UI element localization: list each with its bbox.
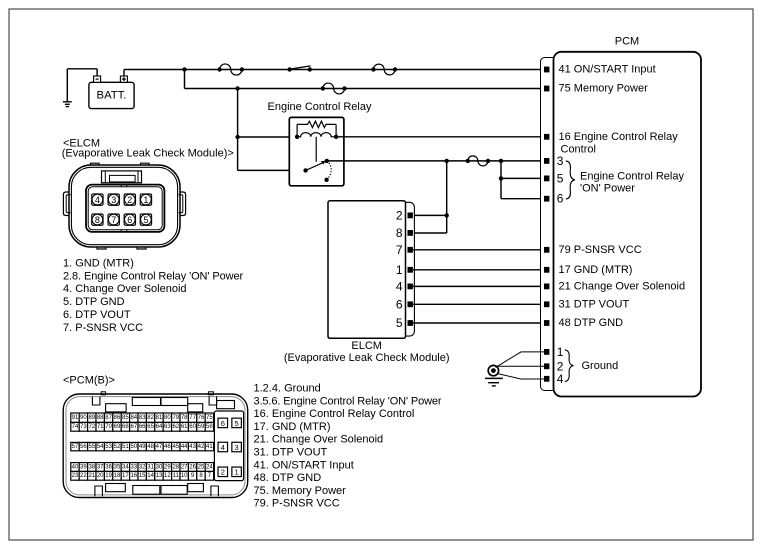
battery positive terminal xyxy=(120,76,127,82)
svg-text:1: 1 xyxy=(396,263,403,277)
ELCM pin 7 xyxy=(408,247,413,253)
wire ON power down to ELCM pin 2/8 xyxy=(446,161,448,233)
svg-text:48 DTP GND: 48 DTP GND xyxy=(559,317,624,329)
svg-text:1. GND (MTR): 1. GND (MTR) xyxy=(63,257,134,269)
junction B xyxy=(235,86,239,90)
svg-text:37: 37 xyxy=(97,464,104,470)
PCM pin 75 xyxy=(544,86,549,92)
wire to PCM pin 5 xyxy=(500,161,502,199)
svg-text:7: 7 xyxy=(396,243,403,257)
ground symbol (chassis) xyxy=(488,365,498,375)
ELCM module box xyxy=(328,201,406,339)
svg-text:7. P-SNSR VCC: 7. P-SNSR VCC xyxy=(63,322,143,334)
svg-text:5: 5 xyxy=(143,215,148,225)
svg-text:25: 25 xyxy=(198,464,205,470)
ELCM pin 2 xyxy=(408,213,413,219)
svg-text:24: 24 xyxy=(206,464,213,470)
ELCM connector pin 1 xyxy=(140,194,151,205)
svg-text:Engine Control Relay: Engine Control Relay xyxy=(580,171,684,183)
PCM pin 6 xyxy=(544,196,549,202)
svg-text:39: 39 xyxy=(80,464,87,470)
svg-text:4: 4 xyxy=(396,279,403,293)
svg-text:2.8. Engine Control Relay 'ON': 2.8. Engine Control Relay 'ON' Power xyxy=(63,270,244,282)
svg-text:78: 78 xyxy=(181,415,188,421)
wire ground to PCM pin 1 xyxy=(496,352,544,368)
svg-text:50: 50 xyxy=(130,444,137,450)
svg-text:2: 2 xyxy=(396,208,403,222)
wire battery+ to PCM pin 41 xyxy=(123,70,125,76)
svg-text:22: 22 xyxy=(80,473,87,479)
svg-text:12: 12 xyxy=(164,473,171,479)
svg-text:2: 2 xyxy=(221,468,225,477)
PCM pin 41 xyxy=(544,67,549,73)
PCM pin 4 xyxy=(544,376,549,382)
svg-text:79: 79 xyxy=(172,415,179,421)
svg-text:33: 33 xyxy=(130,464,137,470)
ELCM pin 1 xyxy=(408,267,413,273)
connector right ear xyxy=(180,192,186,216)
svg-text:21: 21 xyxy=(88,473,95,479)
svg-text:89: 89 xyxy=(88,415,95,421)
wire relay switch out (ON power) xyxy=(327,160,544,162)
svg-text:41. ON/START Input: 41. ON/START Input xyxy=(254,459,354,471)
svg-text:71: 71 xyxy=(97,424,104,430)
svg-text:32: 32 xyxy=(139,464,146,470)
svg-text:87: 87 xyxy=(105,415,112,421)
svg-text:2: 2 xyxy=(127,195,132,205)
svg-text:67: 67 xyxy=(130,424,137,430)
svg-text:15: 15 xyxy=(139,473,146,479)
svg-text:48. DTP GND: 48. DTP GND xyxy=(254,472,322,484)
ELCM pin 4 xyxy=(408,284,413,290)
svg-text:16 Engine Control Relay: 16 Engine Control Relay xyxy=(559,131,679,143)
svg-text:34: 34 xyxy=(122,464,129,470)
svg-text:60: 60 xyxy=(189,424,196,430)
svg-text:88: 88 xyxy=(97,415,104,421)
PCM pin 1 xyxy=(544,349,549,355)
svg-text:73: 73 xyxy=(80,424,87,430)
svg-text:4: 4 xyxy=(557,372,564,386)
relay resistor (parallel) xyxy=(296,124,298,136)
switch (ignition) xyxy=(287,67,291,71)
PCM(B) terminal 5 xyxy=(232,418,242,428)
svg-text:45: 45 xyxy=(172,444,179,450)
wire ELCM 4 to PCM 21 xyxy=(413,285,544,287)
svg-text:83: 83 xyxy=(139,415,146,421)
svg-text:'ON' Power: 'ON' Power xyxy=(580,182,635,194)
svg-text:7: 7 xyxy=(111,215,116,225)
svg-text:90: 90 xyxy=(80,415,87,421)
wire battery negative to ground xyxy=(96,69,98,76)
junction F (ELCM pin 2) xyxy=(445,213,449,217)
svg-text:17: 17 xyxy=(122,473,129,479)
svg-text:42: 42 xyxy=(198,444,205,450)
brace pins 3/5/6 xyxy=(566,161,575,199)
PCM module box xyxy=(554,52,702,397)
PCM(B) connector face view xyxy=(63,392,248,498)
svg-text:61: 61 xyxy=(181,424,188,430)
ELCM connector pin 6 xyxy=(124,214,135,225)
connector latch xyxy=(102,171,142,183)
connector top tab right xyxy=(141,163,150,165)
svg-text:4: 4 xyxy=(95,195,100,205)
PCM pin 79 xyxy=(544,247,549,253)
svg-text:5: 5 xyxy=(557,171,564,185)
cavity ticks xyxy=(120,185,122,188)
svg-text:31. DTP VOUT: 31. DTP VOUT xyxy=(254,447,328,459)
svg-text:1: 1 xyxy=(235,468,239,477)
svg-text:(Evaporative Leak Check Module: (Evaporative Leak Check Module)> xyxy=(62,148,234,160)
svg-text:64: 64 xyxy=(156,424,163,430)
svg-text:21 Change Over Solenoid: 21 Change Over Solenoid xyxy=(559,280,686,292)
svg-text:3: 3 xyxy=(557,154,564,168)
ELCM connector pin 3 xyxy=(108,194,119,205)
svg-text:47: 47 xyxy=(156,444,163,450)
svg-text:48: 48 xyxy=(147,444,154,450)
svg-text:62: 62 xyxy=(172,424,179,430)
fuse F1 xyxy=(217,67,221,71)
svg-text:6: 6 xyxy=(127,215,132,225)
svg-text:49: 49 xyxy=(139,444,146,450)
ground (battery) xyxy=(63,101,72,103)
PCM(B) terminal 2 xyxy=(218,467,228,477)
wire to PCM pin 75 Memory Power xyxy=(184,70,186,89)
svg-text:56: 56 xyxy=(80,444,87,450)
PCM(B) terminal grid xyxy=(71,413,79,422)
PCM(B) terminal 4 xyxy=(218,442,228,452)
ELCM connector pin 2 xyxy=(124,194,135,205)
svg-text:91: 91 xyxy=(72,415,79,421)
PCM(B) terminal 6 xyxy=(218,418,228,428)
svg-text:54: 54 xyxy=(97,444,104,450)
svg-text:10: 10 xyxy=(181,473,188,479)
wire ground to PCM pin 4 xyxy=(497,374,544,380)
battery negative terminal xyxy=(94,76,101,82)
svg-text:31 DTP VOUT: 31 DTP VOUT xyxy=(559,298,630,310)
wire ELCM 5 to PCM 48 xyxy=(413,322,544,324)
svg-text:57: 57 xyxy=(72,444,79,450)
fuse F4 xyxy=(466,159,470,163)
svg-text:80: 80 xyxy=(164,415,171,421)
svg-text:44: 44 xyxy=(181,444,188,450)
svg-text:46: 46 xyxy=(164,444,171,450)
svg-text:68: 68 xyxy=(122,424,129,430)
svg-text:75: 75 xyxy=(206,415,213,421)
svg-text:Ground: Ground xyxy=(582,360,619,372)
svg-text:76: 76 xyxy=(198,415,205,421)
svg-text:6: 6 xyxy=(221,419,225,428)
svg-text:8: 8 xyxy=(95,215,100,225)
svg-text:1.2.4. Ground: 1.2.4. Ground xyxy=(254,383,321,395)
svg-text:Control: Control xyxy=(561,143,596,155)
PCM pin 3 xyxy=(544,158,549,164)
connector cavity xyxy=(86,185,164,232)
svg-text:51: 51 xyxy=(122,444,129,450)
ELCM connector shell xyxy=(392,202,414,336)
PCM pin 31 xyxy=(544,301,549,307)
svg-text:74: 74 xyxy=(72,424,79,430)
ELCM pin 6 xyxy=(408,301,413,307)
ELCM connector pin 7 xyxy=(108,214,119,225)
svg-text:28: 28 xyxy=(172,464,179,470)
svg-text:19: 19 xyxy=(105,473,112,479)
svg-text:79 P-SNSR VCC: 79 P-SNSR VCC xyxy=(559,244,642,256)
svg-text:3: 3 xyxy=(111,195,116,205)
svg-text:21. Change Over Solenoid: 21. Change Over Solenoid xyxy=(254,434,384,446)
PCM pin 5 xyxy=(544,176,549,182)
svg-text:75. Memory Power: 75. Memory Power xyxy=(254,485,347,497)
svg-text:27: 27 xyxy=(181,464,188,470)
svg-text:4. Change Over Solenoid: 4. Change Over Solenoid xyxy=(63,283,187,295)
svg-text:6. DTP VOUT: 6. DTP VOUT xyxy=(63,309,131,321)
wire feed to relay xyxy=(237,89,239,171)
svg-text:23: 23 xyxy=(72,473,79,479)
svg-text:66: 66 xyxy=(139,424,146,430)
svg-text:29: 29 xyxy=(164,464,171,470)
svg-text:6: 6 xyxy=(396,297,403,311)
PCM pin 21 xyxy=(544,284,549,290)
svg-text:26: 26 xyxy=(189,464,196,470)
PCM pin 17 xyxy=(544,267,549,273)
ELCM connector pin 4 xyxy=(92,194,103,205)
relay armature link xyxy=(315,137,317,162)
svg-text:70: 70 xyxy=(105,424,112,430)
wire ELCM 7 to PCM 79 xyxy=(413,249,544,251)
svg-text:84: 84 xyxy=(130,415,137,421)
wire ground to PCM pin 2 xyxy=(497,365,544,367)
right pin group frame xyxy=(214,411,243,481)
svg-text:4: 4 xyxy=(221,443,225,452)
junction E xyxy=(499,159,503,163)
svg-text:11: 11 xyxy=(173,473,180,479)
svg-text:5. DTP GND: 5. DTP GND xyxy=(63,296,125,308)
svg-text:85: 85 xyxy=(122,415,129,421)
PCM connector shell xyxy=(541,58,557,391)
svg-text:16: 16 xyxy=(130,473,137,479)
svg-text:3: 3 xyxy=(235,443,239,452)
svg-text:PCM: PCM xyxy=(615,36,639,48)
svg-text:36: 36 xyxy=(105,464,112,470)
battery BATT. xyxy=(89,82,134,108)
svg-text:14: 14 xyxy=(147,473,154,479)
junction A (battery feed) xyxy=(182,67,186,71)
svg-text:55: 55 xyxy=(88,444,95,450)
svg-text:58: 58 xyxy=(206,424,213,430)
svg-text:30: 30 xyxy=(156,464,163,470)
top notches xyxy=(92,397,100,406)
fuse F2 xyxy=(371,67,375,71)
svg-text:Engine Control Relay: Engine Control Relay xyxy=(268,101,372,113)
svg-text:65: 65 xyxy=(147,424,154,430)
svg-text:79. P-SNSR VCC: 79. P-SNSR VCC xyxy=(254,498,340,510)
PCM pin 48 xyxy=(544,320,549,326)
svg-text:16. Engine Control Relay Contr: 16. Engine Control Relay Control xyxy=(254,408,415,420)
svg-text:20: 20 xyxy=(97,473,104,479)
svg-text:81: 81 xyxy=(156,415,163,421)
svg-text:41 ON/START Input: 41 ON/START Input xyxy=(559,64,656,76)
svg-text:5: 5 xyxy=(396,316,403,330)
svg-text:6: 6 xyxy=(557,192,564,206)
connector outer body xyxy=(69,165,180,247)
svg-text:5: 5 xyxy=(235,419,239,428)
wire ELCM 1 to PCM 17 xyxy=(413,269,544,271)
svg-text:53: 53 xyxy=(105,444,112,450)
svg-text:31: 31 xyxy=(147,464,154,470)
svg-text:63: 63 xyxy=(164,424,171,430)
svg-text:35: 35 xyxy=(114,464,121,470)
svg-text:77: 77 xyxy=(189,415,196,421)
PCM pin 16 xyxy=(544,134,549,140)
svg-text:52: 52 xyxy=(114,444,121,450)
wire to PCM pin 6 xyxy=(501,198,544,200)
svg-text:17 GND (MTR): 17 GND (MTR) xyxy=(559,264,633,276)
svg-text:1: 1 xyxy=(143,195,148,205)
svg-text:82: 82 xyxy=(147,415,154,421)
connector left ear xyxy=(63,192,69,216)
svg-text:<PCM(B)>: <PCM(B)> xyxy=(63,374,115,386)
svg-text:3.5.6. Engine Control Relay 'O: 3.5.6. Engine Control Relay 'ON' Power xyxy=(254,395,442,407)
svg-text:72: 72 xyxy=(88,424,95,430)
connector bottom bump left xyxy=(97,247,106,249)
svg-text:59: 59 xyxy=(198,424,205,430)
PCM(B) terminal 1 xyxy=(232,467,242,477)
relay switch xyxy=(303,168,307,172)
PCM pin 2 xyxy=(544,363,549,369)
svg-text:41: 41 xyxy=(206,444,213,450)
ELCM pin 8 xyxy=(408,230,413,236)
wire ELCM 6 to PCM 31 xyxy=(413,303,544,305)
svg-text:BATT.: BATT. xyxy=(97,89,127,101)
brace pins 1/2/4 xyxy=(565,350,574,382)
junction C (relay coil tap) xyxy=(235,135,239,139)
fuse F3 xyxy=(321,86,325,90)
svg-text:ELCM: ELCM xyxy=(351,340,382,352)
ELCM connector pin 8 xyxy=(92,214,103,225)
svg-text:75 Memory Power: 75 Memory Power xyxy=(559,83,649,95)
connector top tab left xyxy=(91,163,100,165)
bottom notches xyxy=(95,486,103,496)
junction D xyxy=(445,159,449,163)
PCM(B) terminal 3 xyxy=(232,442,242,452)
svg-text:69: 69 xyxy=(114,424,121,430)
svg-text:17. GND (MTR): 17. GND (MTR) xyxy=(254,421,331,433)
wire relay coil out to PCM 16 xyxy=(336,136,544,138)
ELCM connector face view xyxy=(63,163,185,249)
relay coil xyxy=(295,135,299,139)
ELCM connector pin 5 xyxy=(140,214,151,225)
svg-text:86: 86 xyxy=(114,415,121,421)
svg-text:(Evaporative Leak Check Module: (Evaporative Leak Check Module) xyxy=(284,352,450,364)
svg-text:43: 43 xyxy=(189,444,196,450)
svg-text:1: 1 xyxy=(557,345,564,359)
ELCM pin 5 xyxy=(408,320,413,326)
svg-text:38: 38 xyxy=(88,464,95,470)
svg-text:18: 18 xyxy=(114,473,121,479)
svg-text:8: 8 xyxy=(396,226,403,240)
svg-text:40: 40 xyxy=(72,464,79,470)
svg-text:13: 13 xyxy=(156,473,163,479)
